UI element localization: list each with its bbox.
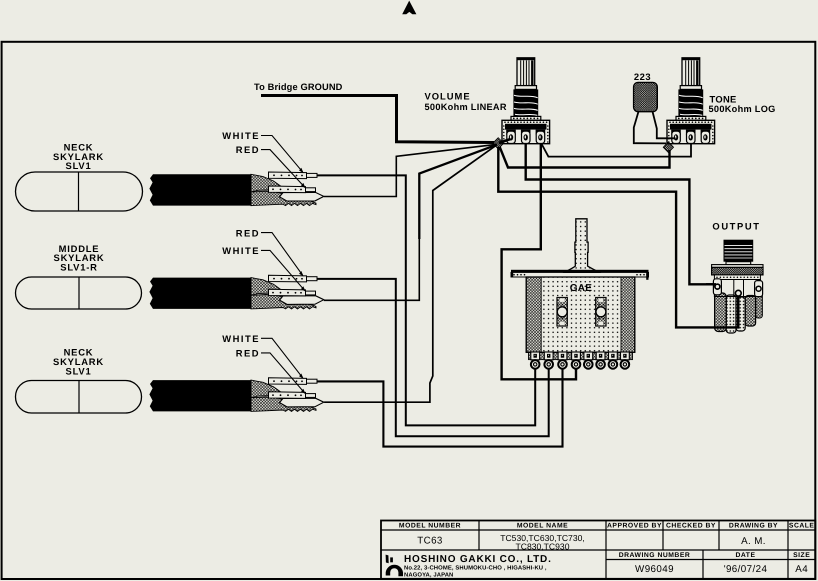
switch lug 6 [596, 352, 605, 369]
svg-text:223: 223 [634, 71, 651, 82]
pickup P2 divider [78, 277, 80, 309]
jack prong tip [736, 297, 745, 331]
switch mounting plate [511, 270, 649, 273]
svg-text:No.22, 3-CHOME, SHUMOKU-CHO ,: No.22, 3-CHOME, SHUMOKU-CHO , HIGASHI-KU… [404, 565, 547, 572]
svg-text:WHITE: WHITE [222, 333, 260, 344]
svg-text:SIZE: SIZE [793, 552, 810, 559]
svg-text:DATE: DATE [736, 552, 756, 559]
title block header texts [399, 523, 815, 560]
wire: ground fan to output jack sleeve lug [498, 147, 738, 327]
jack prong dotted left [726, 295, 736, 333]
pickup P1 divider [78, 172, 80, 211]
pot lug 1 [507, 131, 516, 143]
svg-text:MODEL NUMBER: MODEL NUMBER [399, 523, 461, 530]
svg-text:SCALE: SCALE [789, 523, 815, 530]
leader P2 white [261, 250, 305, 290]
pot flange [511, 116, 541, 120]
jack nut band [712, 267, 763, 275]
capacitor right leg to tone lug1 [653, 112, 676, 139]
pot lug 3 [536, 131, 545, 143]
svg-text:SLV1: SLV1 [66, 160, 92, 171]
leader P2 red [261, 233, 303, 276]
wire: volume lug3 to switch lug4 [502, 141, 576, 379]
jack prong hatched left [715, 293, 727, 332]
pot knurled shaft [517, 58, 535, 86]
capacitor body [634, 82, 658, 111]
svg-text:RED: RED [236, 347, 260, 358]
wire: P2 white lead riser [324, 238, 420, 300]
capacitor left leg to tone casing ground [634, 112, 666, 144]
jack sleeve wire overlay [737, 296, 739, 327]
leader P1 white [261, 136, 303, 172]
leader P3 red [261, 353, 305, 393]
svg-text:GAE: GAE [570, 283, 593, 294]
svg-text:APPROVED BY: APPROVED BY [607, 523, 662, 530]
shield braid fan [251, 174, 281, 192]
leader P3 white [261, 338, 303, 377]
pot terminal header band [505, 124, 547, 130]
wire: P3 red lead to ground fan [324, 145, 496, 402]
svg-text:HOSHINO GAKKI CO., LTD.: HOSHINO GAKKI CO., LTD. [404, 554, 552, 565]
pot shaft step [515, 86, 536, 90]
Hoshino logo mark [386, 555, 403, 577]
switch plate end brackets [511, 272, 513, 277]
switch lugs and rings [531, 352, 540, 369]
jack body [714, 280, 760, 297]
switch lug 3 [558, 352, 567, 369]
jack upper body strip [714, 275, 760, 280]
jack hot wire overlay [706, 283, 716, 285]
top lead crimp [269, 172, 307, 179]
top lead ferrule [307, 173, 318, 177]
wire: volume lug3 to tone lug2 [541, 141, 691, 157]
svg-text:'96/07/24: '96/07/24 [724, 564, 768, 575]
svg-text:WHITE: WHITE [222, 245, 260, 256]
jack hot lug [713, 279, 721, 295]
switch body [526, 277, 635, 352]
cable assembly template (pickup P1), reused for P2 P3 [149, 172, 323, 206]
shield arrow end [280, 192, 324, 201]
svg-text:TONE: TONE [710, 93, 737, 104]
cable assembly pickup P2 [149, 275, 323, 309]
jack sleeve lug hole [735, 290, 741, 296]
switch lug strip [529, 352, 633, 359]
svg-text:TC63: TC63 [417, 536, 443, 547]
jack prong far right [756, 293, 763, 319]
jack lug right [755, 281, 763, 297]
svg-text:NAGOYA, JAPAN: NAGOYA, JAPAN [404, 571, 453, 578]
bottom lead crimp [269, 186, 306, 193]
wire: P2 white upper riser to ground fan (thick) [419, 145, 496, 239]
pot body [502, 120, 550, 143]
wire: volume wiper lug2 to output jack hot lug [526, 141, 717, 284]
svg-text:DRAWING BY: DRAWING BY [729, 523, 778, 530]
title block outer frame [381, 521, 815, 580]
svg-text:RED: RED [236, 144, 260, 155]
svg-text:CHECKED BY: CHECKED BY [666, 523, 716, 530]
svg-text:TC830,TC930: TC830,TC930 [516, 541, 570, 551]
svg-text:SLV1: SLV1 [66, 366, 92, 377]
switch slot 2 [596, 297, 607, 326]
switch lug 4 [572, 352, 581, 369]
jack prong hatched right [745, 296, 755, 327]
pickup P3 divider [78, 381, 80, 414]
svg-text:A4: A4 [795, 564, 808, 575]
wire: P1 white lead to switch lug1 [317, 175, 536, 425]
pickup P1 (neck) pill body [16, 172, 143, 211]
volume pot ground fan diamond [493, 138, 504, 149]
svg-text:To Bridge GROUND: To Bridge GROUND [254, 82, 343, 92]
tone pot ground diamond [663, 142, 673, 153]
switch lug 8 [621, 352, 630, 369]
svg-text:W96049: W96049 [635, 564, 674, 575]
cable jacket [149, 174, 251, 205]
svg-text:VOLUME: VOLUME [425, 91, 471, 102]
switch lug 5 [584, 352, 593, 369]
cable assembly pickup P3 [149, 378, 323, 412]
wire: P1 red lead to ground fan [324, 144, 497, 196]
wire: To Bridge GROUND (thick) [261, 96, 494, 143]
svg-text:DRAWING NUMBER: DRAWING NUMBER [619, 552, 691, 559]
svg-text:A. M.: A. M. [741, 536, 766, 547]
fan link to volume lug1 [499, 139, 511, 143]
leader P1 red [261, 150, 305, 187]
svg-text:WHITE: WHITE [222, 130, 260, 141]
pickup P2 (middle) pill body [16, 277, 142, 309]
svg-text:500Kohm LOG: 500Kohm LOG [709, 104, 776, 114]
title block value texts [417, 536, 808, 575]
wire: ground link volume to tone casing [500, 147, 670, 168]
bottom lead ferrule [306, 188, 316, 192]
switch stem [565, 219, 599, 273]
svg-text:OUTPUT: OUTPUT [712, 221, 760, 232]
pot threaded bushing [513, 89, 538, 116]
tone pot VR2 (500Kohm LOG) [667, 58, 715, 144]
wire: P2 red lead to switch lug2 [317, 279, 549, 436]
switch lug 7 [609, 352, 618, 369]
title block grid lines [381, 530, 815, 560]
top orientation triangle [402, 1, 416, 15]
svg-text:RED: RED [236, 227, 260, 238]
switch lug 2 [544, 352, 553, 369]
pot lug 2 [522, 131, 531, 143]
jack threaded barrel [724, 240, 754, 262]
switch slot 1 [557, 297, 568, 326]
svg-text:SLV1-R: SLV1-R [60, 261, 97, 272]
pickup P3 (neck) pill body [16, 381, 142, 414]
jack flange [712, 265, 763, 268]
svg-text:500Kohm LINEAR: 500Kohm LINEAR [425, 102, 507, 112]
wire: P3 white lead to switch lug3 [317, 369, 563, 447]
svg-text:MODEL NAME: MODEL NAME [517, 523, 568, 530]
jack neck [726, 262, 751, 265]
